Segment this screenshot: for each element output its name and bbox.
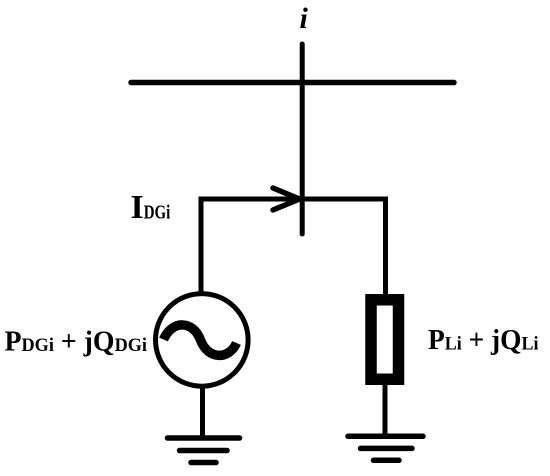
bus vertical stem <box>300 44 305 234</box>
load (rectangle) <box>371 300 399 380</box>
ground (load) <box>348 436 423 460</box>
label I_DGi <box>131 189 171 226</box>
wire: generator to ground <box>200 386 205 438</box>
svg-text:IDGi: IDGi <box>131 189 171 226</box>
wire: load branch vertical <box>383 197 388 297</box>
wire: generator branch vertical <box>199 197 204 294</box>
arrowhead for current I_DGi <box>273 188 300 210</box>
svg-text:PDGi + jQDGi: PDGi + jQDGi <box>5 326 148 358</box>
ground (generator) <box>168 438 240 463</box>
svg-text:PLi + jQLi: PLi + jQLi <box>428 324 539 356</box>
svg-text:i: i <box>300 2 309 35</box>
wire: load to ground <box>383 383 388 436</box>
AC source G (circle) <box>156 294 249 387</box>
AC source sine wave <box>164 325 237 355</box>
wire: generator branch horizontal to junction and to load branch <box>201 197 386 202</box>
bus i horizontal bar <box>131 80 454 86</box>
node label i <box>300 2 309 35</box>
label P_Li + jQ_Li <box>428 324 539 356</box>
label P_DGi + jQ_DGi <box>5 326 148 358</box>
